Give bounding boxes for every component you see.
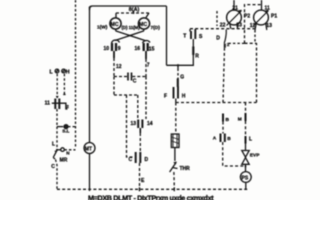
potentiometer P1 <box>250 0 278 30</box>
contact D with 2 <box>216 30 244 48</box>
svg-text:11: 11 <box>45 100 51 106</box>
svg-text:H: H <box>66 69 70 75</box>
contact pair 13/14 <box>131 120 153 129</box>
label 8(A) <box>129 7 140 13</box>
contact pair A/B <box>213 134 232 143</box>
contact pin pair 16/15 <box>135 43 155 53</box>
label 7(D) <box>151 25 161 31</box>
wire switch11 down <box>56 109 58 127</box>
svg-text:MC: MC <box>111 22 119 28</box>
svg-text:F: F <box>164 94 167 100</box>
svg-text:15: 15 <box>149 47 155 53</box>
svg-text:L: L <box>249 137 252 143</box>
svg-text:C: C <box>51 164 55 170</box>
wire horizontal y95 <box>114 94 138 96</box>
svg-text:P1: P1 <box>271 14 277 20</box>
switch 11 <box>45 99 70 110</box>
dashed feeder line left x75 <box>75 0 77 149</box>
svg-text:L: L <box>50 69 54 75</box>
svg-text:9: 9 <box>118 46 121 52</box>
svg-text:E: E <box>141 178 145 184</box>
wire E down to rail <box>139 163 141 191</box>
capacitor C <box>114 73 146 85</box>
svg-text:H: H <box>182 94 186 100</box>
wire crossing MC2 to pins 9/10 <box>115 29 144 41</box>
wire valve feeder down x245.5 <box>245 103 247 114</box>
svg-text:13: 13 <box>131 121 137 127</box>
solenoid valve EVP <box>242 144 260 165</box>
potentiometer P2 <box>220 0 251 29</box>
wire below B <box>222 122 224 134</box>
svg-text:16: 16 <box>135 46 141 52</box>
junction on U bottom <box>177 64 179 66</box>
dashed box around P1 (open boundary) <box>245 5 262 44</box>
bottom rail <box>57 188 248 190</box>
wire branch x126.5 down to C contact <box>127 95 135 157</box>
svg-text:1(W): 1(W) <box>97 25 108 31</box>
heater R box <box>171 134 179 148</box>
svg-text:12: 12 <box>250 23 256 29</box>
terminal labels L phi phi H <box>50 69 70 75</box>
svg-text:B: B <box>226 117 230 123</box>
label (D) 11(M) <box>122 25 141 30</box>
wire THR down to rail <box>173 172 175 189</box>
svg-text:L: L <box>52 142 55 148</box>
svg-text:T: T <box>183 34 186 40</box>
svg-text:A: A <box>213 136 217 142</box>
wire crossing MC1 to pins 15/16 <box>116 29 146 41</box>
wire cap left down <box>113 77 115 96</box>
svg-text:12: 12 <box>116 64 122 70</box>
contact pair C/D <box>129 152 149 163</box>
svg-text:MT: MT <box>85 146 92 152</box>
svg-text:10: 10 <box>104 46 110 52</box>
svg-text:S.L: S.L <box>62 128 69 133</box>
svg-text:G: G <box>180 75 184 81</box>
wire A/B down and across to PS node <box>223 142 244 166</box>
relay contact MR with N branch <box>53 148 75 164</box>
svg-text:2: 2 <box>227 42 230 47</box>
contact L <box>246 136 253 144</box>
wire dashed horizontal y102 <box>176 102 257 104</box>
wire PS down to rail <box>245 182 247 190</box>
dashed stub left of P2 <box>216 11 218 26</box>
svg-text:D: D <box>145 157 149 163</box>
svg-text:C: C <box>129 157 133 163</box>
wire hook left <box>112 40 120 43</box>
label E <box>141 178 145 184</box>
contact M <box>238 113 246 123</box>
svg-text:MR: MR <box>60 158 68 164</box>
thermal contact THR <box>170 148 191 173</box>
timer unit enclosure top edge <box>90 6 167 10</box>
svg-text:B: B <box>227 136 231 142</box>
svg-text:21: 21 <box>232 6 238 12</box>
label 12 <box>116 64 122 70</box>
contact pin pair 10/9 <box>104 43 121 52</box>
svg-text:7: 7 <box>147 63 150 69</box>
wire D down <box>223 48 225 103</box>
svg-text:C: C <box>133 79 137 85</box>
wire F/H down to node <box>175 99 177 103</box>
contactor coil MC1 <box>110 18 121 29</box>
caption text bottom (cut off) <box>88 194 214 203</box>
wire MR down to rail corner <box>53 158 57 190</box>
contact B <box>223 114 230 124</box>
wire branch x137.8 down to contact 13 <box>137 95 139 120</box>
svg-text:(D) 11(M): (D) 11(M) <box>122 25 141 30</box>
wire valve to PS <box>245 164 247 171</box>
motor MT <box>84 143 95 154</box>
label C <box>51 164 55 170</box>
wire riser x257 up to P1 box <box>256 43 258 103</box>
contact pair F/H <box>164 87 186 100</box>
contact R <box>193 39 199 60</box>
svg-text:PS: PS <box>242 175 249 181</box>
svg-text:S: S <box>199 34 203 40</box>
wire bottom U horizontal to R riser <box>167 55 194 65</box>
svg-text:22: 22 <box>220 23 226 29</box>
svg-text:11: 11 <box>265 6 271 12</box>
rail junction ticks <box>140 187 175 191</box>
svg-text:7(D): 7(D) <box>151 25 161 31</box>
svg-text:M=DXB DLMT - DIxTPrxm uxde cxm: M=DXB DLMT - DIxTPrxm uxde cxmxdxt <box>88 194 214 200</box>
dashed line y29 top right <box>190 28 255 30</box>
svg-text:D: D <box>216 35 220 41</box>
wire stub 12 to box bottom <box>254 30 256 43</box>
svg-text:N: N <box>66 151 70 156</box>
wire terminal leads down <box>56 74 66 98</box>
label 1(W) <box>97 25 108 31</box>
contact G <box>178 65 184 87</box>
svg-text:14: 14 <box>147 121 153 127</box>
wire lead7 down to contact 14 <box>145 77 147 120</box>
svg-text:2: 2 <box>66 104 69 109</box>
label 7 <box>147 63 150 69</box>
wire enclosure right vertical <box>166 6 168 65</box>
svg-text:THR: THR <box>180 166 191 172</box>
wire below 13/14 <box>139 128 141 152</box>
wire heater feed down <box>175 103 177 135</box>
svg-text:MC: MC <box>139 22 147 28</box>
svg-text:R: R <box>195 54 199 60</box>
contactor coil MC2 <box>138 18 149 29</box>
wire pin15 down (lead 7) <box>145 51 147 77</box>
wire pin9 down (lead 12) <box>113 51 115 77</box>
label L <box>52 142 55 148</box>
svg-text:EVP: EVP <box>250 153 260 159</box>
svg-text:M: M <box>238 117 242 123</box>
signal lamp S.L <box>57 125 76 134</box>
pressure switch PS <box>240 172 251 183</box>
wire left main vertical (enclosure left / MT feed) <box>89 7 91 191</box>
wire feed from 8(A) <box>116 11 150 19</box>
wire below M <box>245 121 247 136</box>
wire lamp node down <box>56 127 58 150</box>
contact pair T/S <box>183 29 203 40</box>
wire hook right <box>143 41 151 43</box>
